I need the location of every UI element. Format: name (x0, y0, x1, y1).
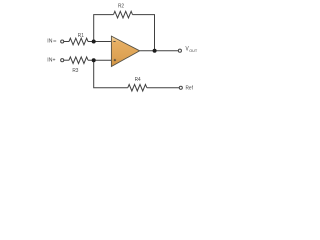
svg-text:Ref: Ref (186, 85, 194, 91)
svg-text:R2: R2 (118, 3, 124, 9)
svg-text:R3: R3 (72, 68, 78, 74)
svg-text:R4: R4 (135, 77, 141, 83)
svg-text:OUT: OUT (189, 48, 198, 53)
svg-text:R1: R1 (78, 32, 84, 38)
svg-text:IN+: IN+ (47, 57, 55, 63)
svg-text:IN: IN (47, 39, 52, 45)
